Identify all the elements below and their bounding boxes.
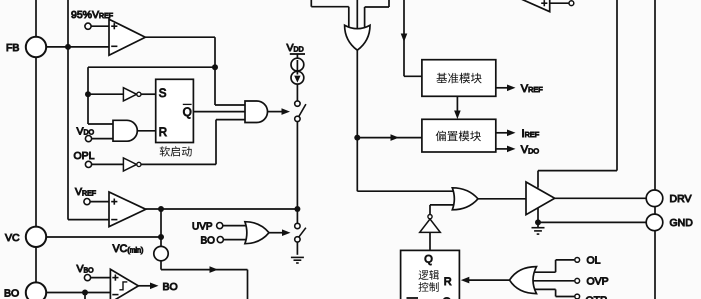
svg-text:OTP: OTP	[586, 295, 608, 299]
svg-text:BO: BO	[163, 281, 178, 293]
svg-text:Q: Q	[183, 107, 192, 119]
svg-text:BO: BO	[201, 235, 216, 246]
svg-text:OL: OL	[587, 255, 601, 267]
svg-text:OVP: OVP	[587, 275, 609, 287]
svg-text:VDO: VDO	[521, 144, 540, 156]
svg-text:GND: GND	[670, 217, 694, 229]
svg-text:S: S	[159, 88, 167, 100]
svg-text:R: R	[444, 276, 452, 288]
svg-text:OPL: OPL	[74, 150, 95, 162]
svg-text:UVP: UVP	[192, 221, 213, 232]
svg-text:Q: Q	[424, 254, 433, 266]
svg-text:IREF: IREF	[522, 128, 540, 140]
svg-text:R: R	[159, 127, 167, 139]
svg-text:VREF: VREF	[521, 83, 543, 95]
svg-text:BO: BO	[4, 287, 19, 299]
svg-text:FB: FB	[6, 42, 19, 54]
svg-text:DRV: DRV	[670, 193, 692, 205]
svg-text:VC: VC	[5, 232, 20, 244]
